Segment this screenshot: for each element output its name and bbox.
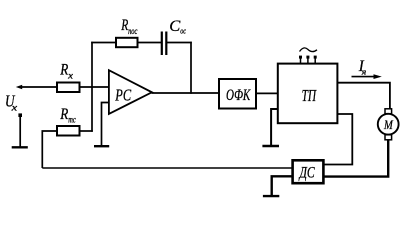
label Cос xyxy=(169,18,186,35)
wire Rос right to summing node xyxy=(80,130,93,132)
resistor Rос xyxy=(57,126,80,136)
svg-text:R: R xyxy=(59,61,68,78)
svg-text:пос: пос xyxy=(128,26,137,36)
wire ТП ground stub xyxy=(271,109,278,146)
svg-text:R: R xyxy=(59,106,68,123)
wire Rпос to Cос xyxy=(138,42,162,44)
svg-text:ОФК: ОФК xyxy=(226,87,251,104)
motor М xyxy=(378,109,399,140)
label ТП xyxy=(302,86,318,105)
ground (source) xyxy=(12,146,28,148)
label ОФК xyxy=(226,87,251,104)
ТП supply pins xyxy=(299,56,317,64)
resistor Rпос xyxy=(116,38,138,47)
ground (ТП) xyxy=(262,145,279,147)
node: source dot xyxy=(18,113,22,117)
svg-text:РС: РС xyxy=(115,86,132,105)
input terminal arrow xyxy=(16,85,22,90)
wire source to ground xyxy=(19,115,21,147)
wire non-inverting input xyxy=(102,103,109,147)
wire ТП to ДС xyxy=(323,114,352,165)
wire Rос left down xyxy=(42,131,57,168)
op-amp РС xyxy=(109,70,152,114)
resistor Rз xyxy=(57,83,80,93)
svg-text:я: я xyxy=(361,66,367,76)
wire ТП to motor xyxy=(337,83,390,109)
block ДС xyxy=(293,160,324,183)
svg-text:тс: тс xyxy=(68,115,76,125)
label Uх xyxy=(5,92,17,113)
wire ДС ground stub xyxy=(272,176,293,196)
ground (ДС) xyxy=(263,195,279,197)
svg-text:ос: ос xyxy=(180,25,186,35)
wire feedback right vertical xyxy=(190,42,192,94)
wire Cос to right vertical xyxy=(167,42,192,44)
capacitor Cос xyxy=(162,32,167,56)
label Iя xyxy=(358,58,366,76)
wire input to Rз xyxy=(21,86,57,88)
wire ОФК to ТП xyxy=(256,92,278,94)
wire Rз to op-amp input xyxy=(80,86,109,88)
wire top loop left xyxy=(91,42,116,44)
label РС xyxy=(115,86,132,105)
ground (op-amp) xyxy=(94,145,109,147)
svg-text:ТП: ТП xyxy=(302,86,318,105)
svg-text:х: х xyxy=(10,103,17,113)
wire bottom feedback to ДС xyxy=(42,167,293,169)
label ~ (AC supply) xyxy=(300,48,318,52)
current arrow Iя xyxy=(352,74,382,79)
label ДС xyxy=(298,165,315,182)
svg-text:М: М xyxy=(383,117,394,132)
block ОФК xyxy=(219,79,256,109)
label Rз xyxy=(59,61,73,80)
label Rос xyxy=(59,106,75,125)
block ТП xyxy=(278,64,338,124)
label Rпос xyxy=(121,17,138,36)
wire motor bottom to ДС xyxy=(323,140,388,177)
svg-text:C: C xyxy=(169,18,180,35)
svg-text:х: х xyxy=(67,70,73,80)
wire op-amp output to ОФК xyxy=(152,92,220,94)
svg-text:ДС: ДС xyxy=(298,165,315,182)
wire summing node vertical xyxy=(91,42,93,132)
